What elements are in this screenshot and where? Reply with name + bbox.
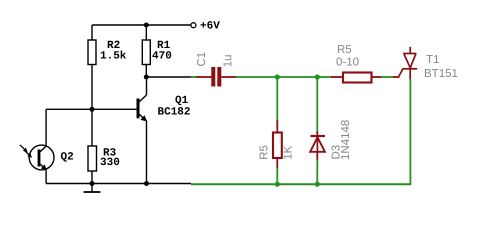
svg-text:330: 330 <box>100 157 120 169</box>
wire R5 left lead <box>331 76 343 78</box>
net C1 to node A <box>236 76 317 78</box>
wire R2 bottom lead <box>91 65 93 110</box>
net R5 to T1 gate <box>381 76 394 78</box>
wire C1 right lead <box>221 76 236 78</box>
svg-text:C1: C1 <box>196 52 208 67</box>
capacitor C1 <box>211 67 215 87</box>
wire node to C1 <box>146 76 191 78</box>
svg-text:Q2: Q2 <box>61 152 74 164</box>
junction node collector <box>144 75 149 80</box>
wire Q2 emitter <box>45 170 47 184</box>
wire R2 top lead <box>91 25 93 40</box>
net R5 bottom <box>276 168 278 184</box>
svg-text:1.5k: 1.5k <box>100 51 127 63</box>
junction rail / R3 <box>90 181 95 186</box>
resistor R5 0-10 <box>343 73 372 83</box>
svg-text:+6V: +6V <box>200 21 220 33</box>
wire D3 bottom lead <box>316 152 318 161</box>
net bottom rail green <box>191 183 411 185</box>
junction node B (D3 top) <box>315 74 320 79</box>
svg-text:0-10: 0-10 <box>336 57 359 69</box>
wire R1 bottom lead <box>145 65 147 78</box>
terminal +6V <box>191 23 196 28</box>
wire D3 top lead <box>316 132 318 137</box>
net T1 cathode down <box>409 79 411 184</box>
wire bottom rail black <box>46 183 191 185</box>
net green into C1 <box>191 76 197 78</box>
svg-text:R5: R5 <box>259 145 271 160</box>
svg-text:BC182: BC182 <box>158 107 191 119</box>
thyristor T1 <box>399 47 418 80</box>
phototransistor Q2 <box>20 145 54 170</box>
resistor R5 1k <box>273 133 282 159</box>
wire R3 bottom lead <box>91 171 93 184</box>
wire C1 left lead <box>196 76 212 78</box>
wire R5 bottom lead <box>276 158 278 169</box>
junction rail / D3 <box>315 182 320 187</box>
net D3 top <box>316 77 318 133</box>
junction rail / Q1 emitter <box>144 181 149 186</box>
light arrow 2 <box>24 150 30 155</box>
svg-text:1N4148: 1N4148 <box>340 120 352 160</box>
light arrow 1 <box>20 145 26 150</box>
wire T1 gate lead <box>393 76 400 78</box>
junction rail / R5 <box>275 182 280 187</box>
junction node A (R5 top) <box>275 74 280 79</box>
wire R5 top lead <box>276 120 278 133</box>
diode D3 <box>310 135 325 137</box>
svg-text:1u: 1u <box>222 55 234 68</box>
resistor R1 <box>142 40 150 65</box>
svg-text:470: 470 <box>152 51 172 63</box>
resistor R3 <box>88 146 97 171</box>
wire Q2 collector <box>45 109 47 146</box>
net node B to R5 <box>317 76 332 78</box>
svg-text:BT151: BT151 <box>424 68 458 80</box>
junction top rail / R1 <box>144 23 149 28</box>
wire top rail <box>92 24 191 26</box>
net R5 top <box>276 77 278 121</box>
net D3 bottom <box>316 160 318 184</box>
wire base net <box>46 108 137 110</box>
svg-text:T1: T1 <box>426 54 439 66</box>
wire R1 top lead <box>145 25 147 40</box>
wire R3 top lead <box>91 109 93 146</box>
wire R5 right lead <box>372 76 383 78</box>
transistor Q1 <box>137 77 148 184</box>
svg-text:R5: R5 <box>337 44 352 56</box>
svg-text:1K: 1K <box>283 145 295 159</box>
svg-text:Q1: Q1 <box>175 95 189 107</box>
resistor R2 <box>88 40 96 65</box>
ground <box>91 184 93 193</box>
junction base / R2-R3 <box>90 107 95 112</box>
